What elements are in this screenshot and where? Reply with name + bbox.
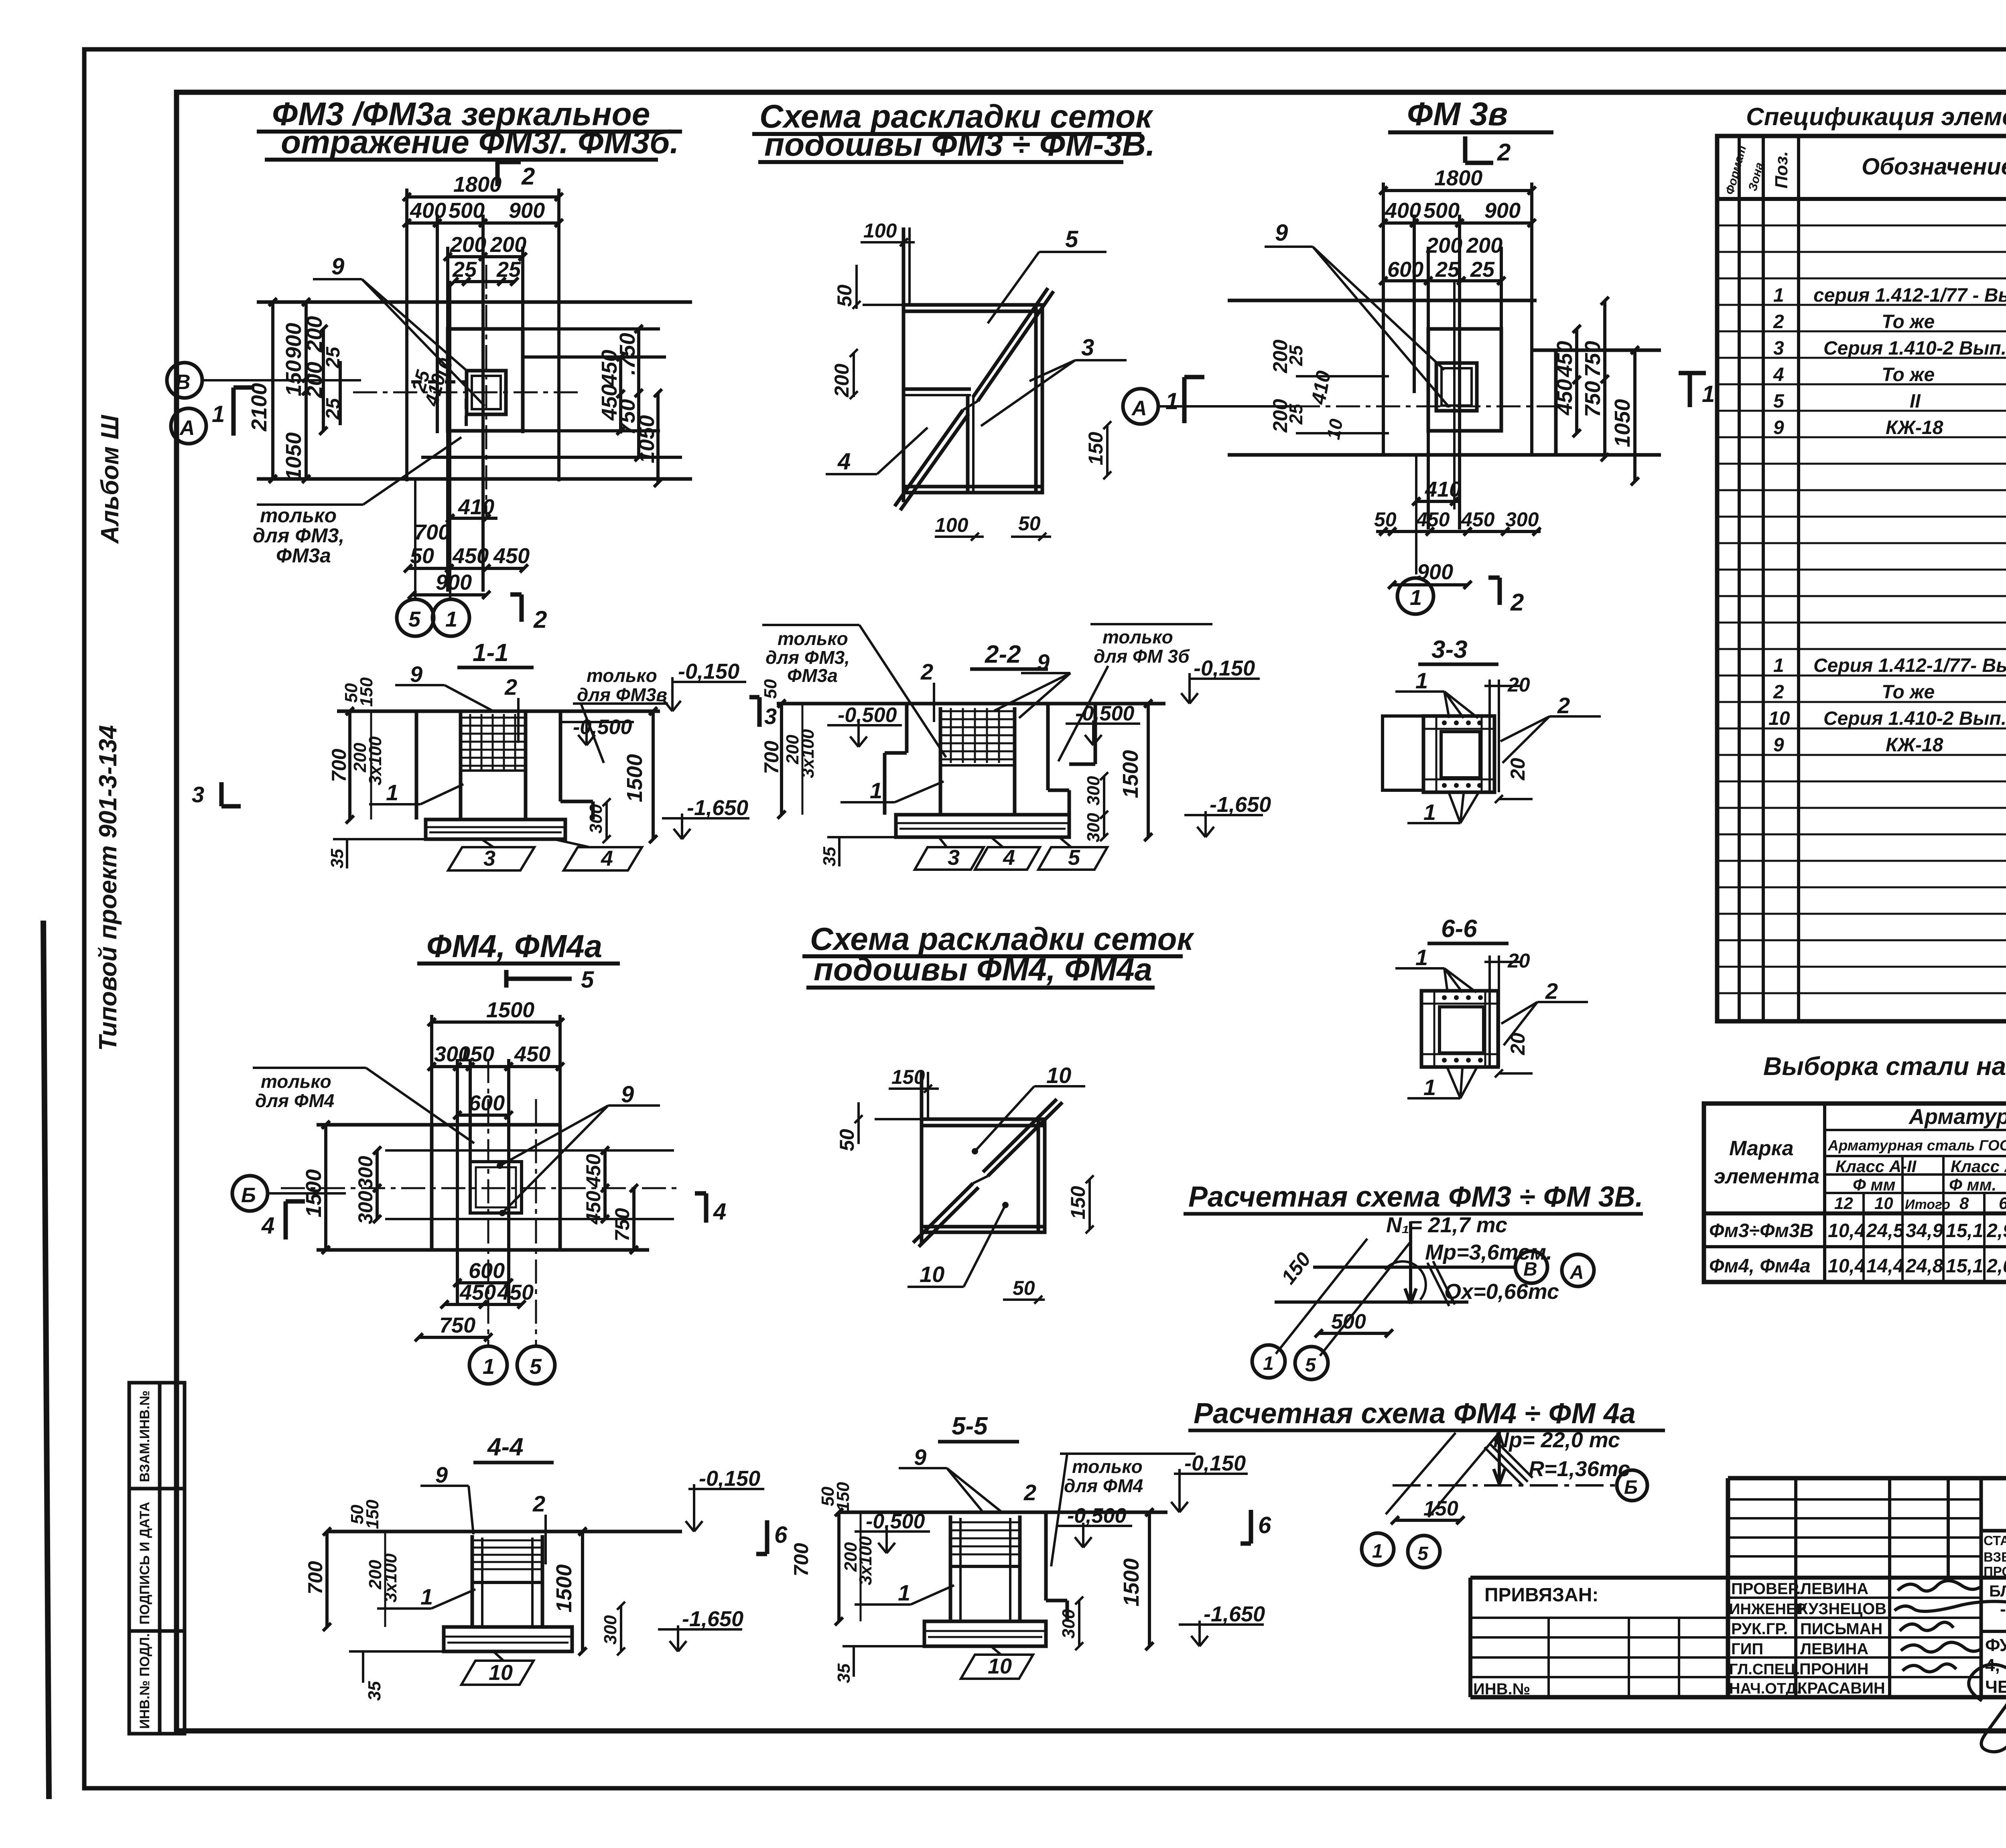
dim line 600 25 25 [1383,279,1501,282]
svg-text:2: 2 [1510,589,1524,616]
svg-text:600: 600 [469,1259,505,1283]
section 2-2 label 1 [841,781,944,802]
section 5-5 dim 300 [1075,1596,1083,1650]
section 2-2 ground line [777,702,1165,706]
section 6-6 label 1 top [1395,968,1476,992]
svg-text:1500: 1500 [623,754,647,802]
svg-text:-0,150: -0,150 [1184,1451,1246,1475]
step rectangle [1428,329,1501,431]
svg-text:14,4: 14,4 [1866,1256,1904,1277]
svg-text:Серия 1.410-2 Вып.1: Серия 1.410-2 Вып.1 [1823,708,2006,729]
svg-text:4: 4 [261,1213,274,1239]
section 1-1 footing [333,820,565,839]
section 1-1 left dims [346,707,371,824]
svg-text:СТАНЦИЯ ОЧИСТКИ ВОДЫ ПОВЕРХНОС: СТАНЦИЯ ОЧИСТКИ ВОДЫ ПОВЕРХНОСТНЫХ ИСТОЧ… [1984,1533,2006,1548]
svg-text:только: только [778,628,848,649]
svg-text:ВЗАМ.ИНВ.№: ВЗАМ.ИНВ.№ [137,1390,152,1482]
svg-text:КУЗНЕЦОВ: КУЗНЕЦОВ [1798,1600,1886,1618]
section 4-4 label 9 [420,1486,473,1534]
ФМ4 axis circle Б [232,1176,346,1211]
bottom dim 50 450 450 [404,564,528,572]
dim 900 bottom (ФМ3в) [1388,581,1472,589]
svg-text:4: 4 [1003,846,1015,870]
svg-text:А: А [1131,397,1147,420]
svg-text:ПРОНИН: ПРОНИН [1799,1660,1869,1678]
svg-text:Выборка стали на один элемент: Выборка стали на один элемент, кГ. [1763,1052,2006,1081]
svg-text:1: 1 [386,780,398,805]
svg-text:150: 150 [891,1066,925,1088]
svg-text:600: 600 [1387,258,1423,282]
svg-text:ФМ4, ФМ4а: ФМ4, ФМ4а [426,928,602,964]
svg-text:5: 5 [1068,846,1080,870]
svg-text:1: 1 [445,607,457,631]
svg-text:1: 1 [1263,1353,1274,1374]
svg-text:РУК.ГР.: РУК.ГР. [1731,1620,1788,1638]
section 5-5 ground line [839,1511,1167,1514]
ФМ3в plan figure [1228,183,1661,529]
section 2-2 mesh [940,708,1015,765]
label 5 with leader [988,252,1107,323]
svg-text:1: 1 [1165,388,1178,414]
svg-text:3-3: 3-3 [1431,636,1468,663]
ФМ4 axis circles bottom [469,1346,507,1384]
section 2-2 level -0,500 right [1066,720,1140,745]
svg-text:750: 750 [1581,341,1605,377]
svg-text:для ФМ3,: для ФМ3, [253,524,344,547]
section 2-2 level -0,500 left [827,722,902,747]
схема раскладки ФМ3 square [863,227,1054,510]
svg-text:1: 1 [870,778,882,803]
svg-text:5: 5 [530,1355,542,1379]
section 1-1 right section mark 3 [749,697,759,727]
section 5-5 mesh [950,1522,1020,1566]
svg-text:2: 2 [1557,693,1570,718]
svg-text:Ф мм: Ф мм [1853,1175,1896,1194]
section mark Т1 right [1679,373,1706,407]
svg-text:Типовой проект 901-3-134: Типовой проект 901-3-134 [94,725,122,1051]
label 3 with leader [981,360,1127,426]
section 4-4 ground line [327,1530,682,1534]
svg-text:9: 9 [1773,417,1784,438]
svg-text:6: 6 [1258,1512,1271,1538]
svg-text:В: В [1523,1259,1537,1280]
svg-text:2: 2 [1773,682,1784,703]
dim line 25 25 [453,280,516,283]
svg-text:10: 10 [1323,417,1347,441]
signatures [1894,1580,2006,1752]
svg-text:2: 2 [1773,311,1784,333]
section 5-5 level -0,150 [1171,1469,1248,1512]
svg-text:для ФМ4: для ФМ4 [255,1090,334,1111]
footing horizontals [1228,299,1537,302]
svg-text:1500: 1500 [1119,750,1143,798]
svg-text:9: 9 [914,1444,926,1470]
svg-text:Серия 1.412-1/77- Вып.3: Серия 1.412-1/77- Вып.3 [1813,655,2006,676]
section 3-3 wall left [1383,716,1423,790]
section 3-3 dim 20 top [1484,680,1521,792]
svg-text:То же: То же [1882,311,1935,333]
svg-text:для ФМ 3б: для ФМ 3б [1094,646,1190,667]
scan paper edge artifact [43,921,49,1799]
section flag 1 left [233,387,254,436]
axis circle 5 bottom [397,599,434,636]
svg-text:10: 10 [1874,1194,1893,1213]
svg-text:Арматурные изделия: Арматурные изделия [1908,1105,2006,1129]
section 2-2 dim 1500 [1144,700,1152,841]
svg-text:-1,650: -1,650 [687,796,748,820]
svg-text:ПРИВЯЗАН:: ПРИВЯЗАН: [1484,1584,1598,1606]
svg-text:500: 500 [1331,1310,1366,1333]
svg-text:элемента: элемента [1714,1165,1819,1188]
svg-text:Б: Б [241,1184,256,1207]
svg-text:1: 1 [1702,381,1715,407]
svg-text:34,9: 34,9 [1906,1220,1943,1241]
section 2-2 left dims [778,700,802,819]
svg-text:-0,150: -0,150 [699,1467,760,1491]
svg-text:5: 5 [1065,226,1078,252]
svg-text:35: 35 [820,847,839,866]
svg-text:400: 400 [410,199,446,223]
svg-text:ГИП: ГИП [1731,1640,1763,1658]
svg-text:ИНВ.№ ПОДЛ.: ИНВ.№ ПОДЛ. [137,1633,152,1729]
svg-text:Ф мм.: Ф мм. [1949,1175,1996,1194]
section mark 2 above ФМ3в plan [1465,136,1493,163]
ФМ4 right dims [601,1146,638,1254]
svg-text:НАЧ.ОТД.: НАЧ.ОТД. [1729,1680,1801,1697]
section 1-1 label 9 [395,685,493,711]
section flag 1 (ФМ3в) [1184,377,1204,423]
svg-text:2: 2 [504,674,517,700]
svg-text:450: 450 [1461,508,1495,531]
svg-text:1500: 1500 [1119,1558,1143,1607]
left section mark 3 [221,782,241,806]
svg-text:450: 450 [493,544,530,568]
title block frame [1470,1478,2006,1697]
svg-text:Класс А-II: Класс А-II [1835,1157,1917,1176]
section 3-3 rebar dots [1442,720,1482,788]
svg-text:2: 2 [920,659,933,684]
section 2-2 footing [827,815,1069,837]
svg-text:2: 2 [521,163,535,190]
svg-text:1: 1 [1372,1541,1383,1562]
svg-text:450: 450 [1416,508,1450,531]
svg-text:900: 900 [436,570,472,594]
svg-text:1: 1 [212,401,225,427]
svg-text:1: 1 [1410,586,1422,610]
svg-text:N₁= 21,7 тс: N₁= 21,7 тс [1386,1213,1507,1237]
ФМ4 left dims [322,1121,381,1254]
svg-text:410: 410 [1425,477,1461,501]
dim 410 bottom (ФМ3в) [1412,497,1460,505]
svg-text:II: II [1910,391,1921,412]
section 3-3 column squares [1423,716,1494,792]
svg-text:3х100: 3х100 [365,736,385,785]
svg-text:Альбом Ш: Альбом Ш [96,414,124,544]
section 4-4 footing [349,1627,572,1651]
svg-text:3: 3 [192,782,204,807]
svg-text:-0,500: -0,500 [1067,1504,1127,1527]
svg-text:-0,500: -0,500 [573,716,632,739]
svg-text:700: 700 [304,1561,327,1594]
section 2-2 note только для ФМ 3б [1058,624,1212,761]
svg-text:25: 25 [323,398,344,420]
svg-text:1500: 1500 [486,998,534,1022]
section 1-1 flag 3 [448,839,534,870]
svg-text:5: 5 [581,967,594,993]
svg-text:1: 1 [898,1580,910,1605]
svg-text:3: 3 [948,846,960,870]
svg-text:150: 150 [1277,1248,1316,1288]
section 4-4 level -0,150 [686,1484,764,1532]
inner double horizontal [904,387,971,391]
svg-text:1800: 1800 [1434,166,1482,190]
label 4 with leader [826,428,928,474]
steel table grid [1704,1104,2006,1282]
svg-text:КРАСАВИН: КРАСАВИН [1797,1680,1885,1697]
svg-text:600: 600 [469,1091,505,1115]
расчетная схема ФМ4 diagram [1386,1432,1616,1524]
section 4-4 mark 6 right [756,1520,767,1554]
svg-text:Серия 1.410-2 Вып.1: Серия 1.410-2 Вып.1 [1823,338,2006,359]
column double square [467,371,506,414]
svg-text:700: 700 [414,520,450,544]
svg-text:5-5: 5-5 [952,1412,988,1440]
svg-text:3: 3 [1773,338,1784,359]
section 5-5 dim 35 [853,1646,855,1677]
svg-text:1: 1 [1773,655,1784,676]
svg-text:450: 450 [452,544,489,568]
ФМ3 plan dimension texts [247,172,659,481]
svg-text:5: 5 [1305,1355,1316,1376]
svg-text:подошвы ФМ3 ÷ ФМ-3В.: подошвы ФМ3 ÷ ФМ-3В. [764,126,1155,163]
svg-text:5: 5 [1417,1543,1429,1564]
svg-text:Формат: Формат [1723,144,1749,196]
ФМ4 section flag 4 left [286,1201,305,1239]
расчетная схема ФМ4 circles [1362,1470,1647,1568]
svg-text:только: только [587,665,657,686]
section 1-1 level -1,650 [662,813,749,839]
svg-text:1: 1 [1423,799,1436,825]
svg-text:15,1: 15,1 [1946,1220,1983,1241]
svg-text:400: 400 [1385,199,1421,223]
расчетная схема ФМ3 diagram [1275,1221,1515,1356]
leader label 9 (ФМ3в) [1265,247,1449,407]
svg-text:1500: 1500 [552,1564,576,1613]
svg-text:То же: То же [1882,364,1935,385]
svg-text:25: 25 [496,258,521,282]
axis circle А [171,408,206,444]
ФМ4 note только для ФМ4 [253,1068,474,1143]
section 1-1 dim 300 [603,798,611,843]
svg-text:ИНЖЕНЕР: ИНЖЕНЕР [1729,1601,1807,1618]
svg-text:То же: То же [1882,682,1935,703]
section 6-6 dim 20 top [1484,955,1521,1067]
схема ФМ3 dims [850,238,1111,541]
svg-text:2: 2 [1023,1480,1036,1505]
spec rows ФМ3 block [1773,203,2006,572]
svg-text:отражение ФМ3/. ФМ3б.: отражение ФМ3/. ФМ3б. [281,124,679,160]
bottom dim 900 [408,591,490,599]
svg-text:1050: 1050 [1610,399,1634,447]
centerline dash-dot [1296,406,1565,408]
svg-text:-0,500: -0,500 [866,1510,925,1533]
svg-text:2,9: 2,9 [1986,1220,2006,1241]
svg-text:R=1,36тс: R=1,36тс [1529,1457,1630,1481]
title block texts [1473,1490,2006,1698]
svg-text:КЖ-18: КЖ-18 [1886,417,1943,438]
svg-text:ГЛ.СПЕЦ.: ГЛ.СПЕЦ. [1729,1661,1800,1678]
svg-text:450: 450 [582,1154,605,1188]
svg-text:1800: 1800 [453,172,501,197]
dim line 1800 [407,195,559,199]
svg-text:500: 500 [1423,199,1460,223]
svg-text:300: 300 [1505,508,1539,531]
svg-text:ФМ3а: ФМ3а [787,665,838,686]
section mark 5 under title [506,970,572,988]
svg-text:6-6: 6-6 [1441,915,1477,943]
svg-text:1050: 1050 [635,415,659,463]
ФМ3 plan figure [257,189,692,592]
left dim chains [271,302,274,479]
svg-text:20: 20 [1507,758,1529,781]
right dim chains [523,355,666,359]
svg-text:1: 1 [420,1584,433,1609]
svg-text:-1,650: -1,650 [1210,793,1271,817]
схема ФМ4 square [875,1072,1062,1247]
extension verticals [405,189,408,481]
section 3-3 label 1 top [1395,692,1478,718]
title схема раскладки сеток ФМ3 [752,98,1155,163]
svg-text:450: 450 [1553,341,1577,377]
svg-text:900: 900 [1484,199,1521,223]
section 1-1 dim 1500 [649,707,657,843]
svg-text:25: 25 [1470,258,1495,282]
dim line 400 500 900 [1383,221,1532,225]
dim line 400 500 900 [407,221,559,225]
svg-text:35: 35 [327,849,347,868]
section 3-3 label 2 [1500,716,1601,763]
section 5-5 label 1 [855,1585,954,1605]
svg-text:ЛЕВИНА: ЛЕВИНА [1800,1640,1868,1658]
section 5-5 level -0,500 right [1058,1523,1132,1548]
extension verticals [430,1015,433,1250]
svg-text:3: 3 [483,846,495,870]
svg-text:150: 150 [1067,1186,1089,1219]
svg-text:Фм3÷Фм3В: Фм3÷Фм3В [1709,1220,1813,1241]
svg-text:10,4: 10,4 [1828,1256,1865,1277]
section 1-1 flag 4 [554,839,642,870]
svg-text:.750: .750 [615,333,640,375]
svg-text:подошвы ФМ4, ФМ4а: подошвы ФМ4, ФМ4а [814,951,1152,987]
схема ФМ4 dims [855,1085,1094,1304]
section 1-1 label 1 [369,784,463,804]
ФМ4 label 9 [500,1106,660,1213]
section 4-4 mesh [472,1540,542,1582]
svg-text:700: 700 [328,749,350,782]
dim 50 450 450 300 bottom (ФМ3в) [1376,527,1541,536]
steel table data rows [1709,1218,2006,1277]
section 1-1 dim 35 [346,839,348,868]
svg-text:12: 12 [1834,1194,1853,1213]
section 1-1 column and wall [416,712,593,820]
axis circle В [167,363,361,398]
svg-text:-1,650: -1,650 [1204,1602,1265,1626]
dim line 1800 [1383,189,1532,192]
svg-text:24,8: 24,8 [1905,1256,1943,1277]
section 2-2 column [885,704,1095,815]
steel table header texts [1714,1105,2006,1213]
svg-text:1050: 1050 [282,432,306,481]
svg-text:6: 6 [774,1522,788,1548]
схема ФМ4 label 10 top [975,1086,1085,1151]
svg-text:150: 150 [357,677,376,707]
title ФМ3/ФМ3а mirror heading [257,96,682,160]
spec table grid [1717,136,2006,1021]
svg-text:50: 50 [1013,1277,1035,1299]
section 5-5 level -1,650 [1179,1621,1264,1646]
section 5-5 left dims [835,1508,861,1625]
svg-text:4: 4 [837,448,851,475]
svg-text:Спецификация элементов монолит: Спецификация элементов монолитной констр… [1746,103,2006,131]
svg-text:4: 4 [601,846,613,870]
section 5-5 column [950,1512,1067,1621]
svg-text:3х100: 3х100 [798,729,818,778]
svg-text:3: 3 [764,704,777,729]
svg-text:2-2: 2-2 [985,641,1021,668]
svg-text:4: 4 [713,1199,726,1225]
section mark 2 bottom [510,594,522,622]
svg-text:3х100: 3х100 [856,1536,875,1585]
section 4-4 column [472,1535,542,1627]
svg-text:200: 200 [450,233,486,257]
svg-text:300: 300 [1084,813,1103,842]
section 2-2 level -1,650 [1184,811,1263,837]
svg-text:А: А [1569,1262,1584,1283]
svg-text:9: 9 [621,1081,634,1108]
section 5-5 label 9 [899,1468,1003,1513]
right dim chains [1575,329,1578,433]
ФМ4 section flag 4 right [695,1193,706,1223]
section 5-5 note только для ФМ4 [1051,1454,1196,1566]
section 5-5 flag 10 [961,1646,1033,1679]
svg-text:750: 750 [611,1208,633,1241]
svg-text:500: 500 [449,199,485,223]
svg-text:серия 1.412-1/77 - Вып.3: серия 1.412-1/77 - Вып.3 [1813,285,2006,306]
svg-text:750: 750 [1581,381,1605,417]
svg-text:9: 9 [1275,220,1288,246]
section 6-6 label 2 [1501,1002,1588,1045]
svg-text:Марка: Марка [1729,1137,1794,1160]
svg-text:100: 100 [863,219,897,242]
svg-text:300: 300 [586,804,606,834]
svg-text:А: А [179,416,195,440]
svg-text:10: 10 [1768,708,1790,729]
ФМ4 bottom dims [415,1279,526,1341]
svg-text:только: только [1102,627,1173,647]
svg-text:50: 50 [410,544,434,568]
section 4-4 left dims [323,1527,385,1631]
svg-text:750: 750 [439,1313,475,1337]
ФМ4 plan body [281,1059,682,1346]
svg-text:200: 200 [830,363,853,398]
svg-text:100: 100 [935,514,968,536]
left margin stamp boxes [129,1383,185,1734]
footing outline horizontals [257,300,692,304]
svg-text:2: 2 [532,1491,545,1516]
svg-text:ПРОВЕР.: ПРОВЕР. [1731,1580,1801,1598]
svg-text:450: 450 [1553,379,1577,416]
svg-text:-0,500: -0,500 [838,704,897,727]
